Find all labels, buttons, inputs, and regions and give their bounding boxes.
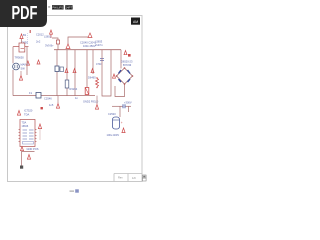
transformer T5650 (13, 43, 29, 52)
svg-text:2x27m: 2x27m (95, 43, 103, 47)
wire bridge feed (120, 50, 122, 69)
test point arrow TP13 (38, 124, 41, 140)
electrolytic C2520 (113, 106, 123, 129)
svg-text:TR5650: TR5650 (15, 56, 25, 60)
svg-text:GND POS: GND POS (27, 147, 39, 151)
svg-text:MAINS: MAINS (21, 63, 29, 67)
bridge rectifier D6520 (116, 67, 134, 85)
resistor R3500 (56, 40, 59, 50)
test point F1 arrow (20, 34, 23, 43)
fuse F1501 (124, 51, 131, 57)
svg-text:+300V: +300V (124, 101, 132, 105)
bus ground (13, 95, 95, 97)
label R3234 (70, 87, 78, 91)
label TR5650 (15, 56, 25, 60)
label 100u 400V (107, 133, 120, 137)
label IC7520 (24, 109, 33, 117)
label C2520 (108, 112, 116, 116)
svg-text:100u 400V: 100u 400V (107, 133, 120, 137)
test point arrow TP2 (27, 61, 30, 65)
resistor R3505 (96, 77, 99, 88)
footer page mark (70, 189, 79, 192)
label +300V (124, 101, 132, 105)
coil L5653 mark (66, 44, 70, 49)
header badge 1 (52, 5, 64, 9)
svg-text:C2546: C2546 (44, 97, 52, 101)
svg-text:GND2 FIELD: GND2 FIELD (83, 100, 98, 104)
fusible resistor R3200 (85, 88, 89, 95)
fuse 1505 (50, 30, 53, 38)
svg-text:Rev: Rev (118, 176, 123, 180)
mains plug X1 (13, 63, 20, 70)
test point arrow TP9 (113, 74, 116, 78)
bus main (54, 49, 121, 51)
PDF badge (0, 0, 47, 27)
svg-text:PDF: PDF (12, 3, 38, 23)
wire bridge return (115, 84, 125, 97)
test point arrow TP7 (73, 69, 76, 73)
svg-text:AM: AM (133, 20, 138, 24)
wire fuse branch (52, 38, 58, 40)
margin marks (143, 175, 147, 181)
wire degauss (68, 37, 88, 44)
label L5651 (44, 35, 52, 39)
svg-text:1n: 1n (75, 96, 78, 100)
switch S1 (55, 66, 64, 72)
page frame (8, 16, 143, 182)
label F1 (29, 91, 33, 95)
test point arrow TP6 (65, 69, 68, 73)
capacitor C2043 (65, 80, 69, 88)
IC U1 TDA16846 (19, 120, 37, 147)
wire IC ground (22, 152, 35, 166)
svg-text:16846: 16846 (22, 125, 29, 128)
test point arrow TP11 (95, 96, 98, 110)
svg-text:D6520-23: D6520-23 (121, 60, 133, 64)
red mark M1 (41, 107, 43, 109)
svg-text:B1: B1 (23, 33, 27, 37)
capacitor C2515 (112, 104, 131, 112)
label C2012 (36, 33, 44, 44)
test point arrow TP4 (88, 33, 92, 38)
svg-text:D6465: D6465 (88, 76, 96, 80)
svg-text:3V9 B+: 3V9 B+ (45, 44, 54, 48)
test point arrow TP14 (21, 147, 24, 151)
svg-text:1n5: 1n5 (49, 103, 54, 107)
header tick (48, 6, 50, 8)
corner badge A11 (131, 18, 140, 25)
svg-text:2n2: 2n2 (36, 40, 41, 44)
svg-text:L5653: L5653 (95, 40, 103, 44)
label GND2 (75, 96, 98, 104)
svg-text:F1: F1 (29, 91, 33, 95)
label GND POS (27, 147, 39, 151)
label MAINS (21, 63, 29, 71)
capacitor C2544 (96, 59, 104, 67)
svg-text:SW: SW (21, 67, 26, 71)
svg-text:14PT: 14PT (65, 6, 72, 10)
label D6520 (121, 60, 133, 68)
svg-text:IC7520: IC7520 (24, 109, 33, 113)
wire branch 3 (74, 50, 76, 96)
test point arrow TP5 (37, 60, 40, 64)
label L5653 (95, 40, 103, 48)
wire right vertical (26, 47, 28, 75)
title block (114, 174, 143, 182)
svg-text:BYD33: BYD33 (123, 63, 132, 67)
label C2546 (44, 97, 54, 108)
svg-text:L5651: L5651 (44, 35, 52, 39)
wire branch 5 (92, 50, 94, 74)
svg-text:+: + (121, 121, 123, 125)
test point arrow TP15 (27, 155, 30, 160)
ground pad (20, 166, 23, 169)
test point arrow TP10 (56, 96, 59, 109)
header badge 2 (65, 5, 72, 9)
wire branch 1 (56, 50, 58, 96)
svg-text:470n: 470n (96, 62, 102, 66)
label C2040 (80, 41, 97, 49)
connector X2 (36, 93, 41, 99)
red mark M0 (30, 30, 31, 33)
label D6465 (88, 76, 96, 80)
wire branch 4 (86, 50, 88, 88)
node label B1 (22, 33, 28, 45)
wire left vertical (12, 47, 14, 96)
svg-text:1/9: 1/9 (132, 176, 136, 180)
svg-text:C2012: C2012 (36, 33, 44, 37)
svg-text:C2520: C2520 (108, 112, 116, 116)
wire branch 2 (66, 50, 68, 96)
ground arrow G1 (122, 128, 125, 133)
test point arrow TP3 (19, 71, 22, 80)
svg-text:R3234: R3234 (70, 87, 78, 91)
svg-text:PHILIPS: PHILIPS (52, 6, 63, 10)
label 3V9 (45, 44, 54, 48)
wire branch 6 (102, 50, 111, 96)
svg-text:100n 250V: 100n 250V (83, 44, 96, 48)
svg-text:TDA: TDA (24, 113, 29, 117)
test point arrow TP12 (17, 111, 20, 116)
test point arrow TP8 (91, 69, 94, 73)
